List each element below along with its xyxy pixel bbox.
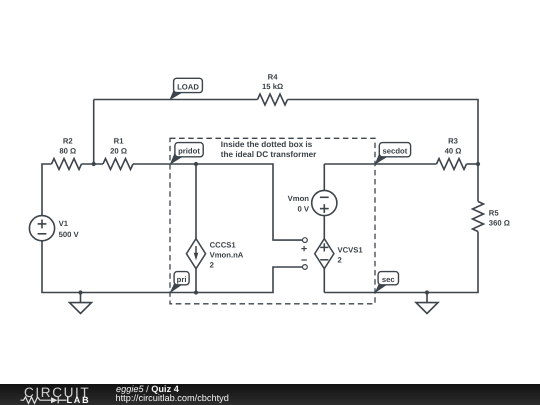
wire R3 to right rail bbox=[467, 163, 479, 165]
wire LOAD net vertical bbox=[93, 99, 95, 164]
svg-text:LAB: LAB bbox=[66, 395, 90, 405]
ground right stem bbox=[426, 293, 428, 303]
svg-text:pri: pri bbox=[177, 275, 187, 284]
junction R3-R5 bbox=[476, 162, 480, 166]
svg-text:R5: R5 bbox=[489, 208, 500, 217]
wire R2 to R1 bbox=[82, 163, 104, 165]
junction ground right bbox=[425, 290, 429, 294]
svg-text:http://circuitlab.com/cbchtyd: http://circuitlab.com/cbchtyd bbox=[115, 393, 228, 403]
junction CCCS1 top on pridot net bbox=[194, 162, 198, 166]
svg-text:R3: R3 bbox=[448, 137, 458, 146]
svg-text:sec: sec bbox=[382, 275, 396, 284]
svg-text:V1: V1 bbox=[59, 219, 69, 228]
wire Vmon to VCVS1 bbox=[323, 216, 325, 239]
logo resistor-diode squiggle bbox=[20, 397, 66, 403]
svg-text:Vmon: Vmon bbox=[288, 194, 310, 203]
junction R1-R2-LOAD bbox=[92, 162, 96, 166]
resistor R5 bbox=[472, 202, 483, 232]
junction CCCS1 bottom on pri net bbox=[194, 290, 198, 294]
CCCS1 diamond bbox=[186, 239, 205, 269]
svg-text:80 Ω: 80 Ω bbox=[59, 146, 76, 155]
resistor R3 bbox=[437, 159, 467, 170]
svg-text:Vmon.nA: Vmon.nA bbox=[210, 250, 244, 259]
wire VCVS1 bottom lead bbox=[323, 269, 325, 293]
svg-text:CCCS1: CCCS1 bbox=[210, 240, 237, 249]
svg-text:R2: R2 bbox=[63, 137, 73, 146]
svg-text:VCVS1: VCVS1 bbox=[337, 245, 363, 254]
svg-text:15 kΩ: 15 kΩ bbox=[262, 82, 283, 91]
svg-text:R1: R1 bbox=[114, 137, 125, 146]
svg-text:40 Ω: 40 Ω bbox=[445, 146, 462, 155]
flag LOAD bbox=[169, 78, 202, 100]
svg-text:20 Ω: 20 Ω bbox=[110, 146, 127, 155]
VCVS1 sense terminal - bbox=[301, 260, 307, 269]
svg-text:2: 2 bbox=[337, 256, 341, 265]
wire LOAD net top left bbox=[94, 98, 258, 100]
svg-text:the ideal DC transformer: the ideal DC transformer bbox=[221, 150, 317, 159]
svg-text:R4: R4 bbox=[268, 72, 279, 81]
wire Vmon top lead bbox=[323, 164, 325, 191]
svg-text:360 Ω: 360 Ω bbox=[489, 219, 510, 228]
VCVS1 diamond bbox=[315, 239, 334, 269]
wire sec bottom rail bbox=[324, 232, 478, 293]
dashed transformer box bbox=[170, 138, 375, 304]
wire secdot net bbox=[324, 163, 436, 165]
wire CCCS1 bottom lead bbox=[195, 269, 197, 293]
wire R5 top lead bbox=[477, 164, 479, 202]
wire V1 bottom to pri rail and VCVS1 minus sense stub bbox=[42, 241, 302, 293]
voltage source Vmon bbox=[312, 190, 337, 215]
VCVS1 sense terminal + bbox=[301, 238, 307, 252]
flag sec bbox=[374, 272, 398, 294]
svg-text:LOAD: LOAD bbox=[177, 82, 199, 91]
wire CCCS1 top lead bbox=[195, 164, 197, 239]
ground right triangle bbox=[416, 303, 438, 314]
svg-text:secdot: secdot bbox=[383, 147, 408, 156]
wire V1 top lead bbox=[42, 164, 52, 216]
svg-text:0 V: 0 V bbox=[297, 204, 309, 213]
resistor R1 bbox=[103, 158, 133, 169]
flag pridot bbox=[170, 143, 204, 165]
wire pridot net to VCVS1 plus sense bbox=[133, 164, 302, 240]
svg-text:Inside the dotted box is: Inside the dotted box is bbox=[221, 140, 313, 149]
svg-text:pridot: pridot bbox=[178, 147, 200, 156]
junction ground left bbox=[78, 290, 82, 294]
ground left stem bbox=[79, 292, 81, 302]
flag secdot bbox=[375, 143, 411, 165]
svg-text:500 V: 500 V bbox=[59, 230, 80, 239]
resistor R2 bbox=[52, 158, 82, 169]
voltage source V1 bbox=[29, 216, 54, 241]
resistor R4 bbox=[258, 94, 288, 105]
ground left triangle bbox=[69, 303, 91, 314]
wire LOAD net top right bbox=[288, 100, 479, 165]
flag pri bbox=[170, 272, 190, 294]
svg-text:2: 2 bbox=[210, 260, 214, 269]
